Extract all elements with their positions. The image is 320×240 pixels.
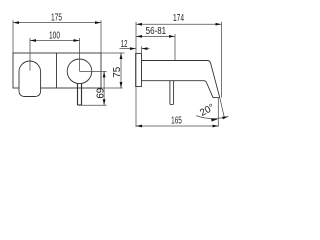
svg-text:174: 174: [173, 11, 184, 23]
svg-text:20°: 20°: [198, 102, 216, 119]
svg-text:56-81: 56-81: [146, 25, 166, 36]
svg-text:75: 75: [112, 66, 123, 77]
svg-text:12: 12: [121, 37, 128, 49]
svg-text:175: 175: [51, 11, 62, 23]
svg-text:165: 165: [171, 114, 182, 126]
svg-text:100: 100: [49, 29, 60, 41]
svg-text:69: 69: [96, 88, 107, 99]
